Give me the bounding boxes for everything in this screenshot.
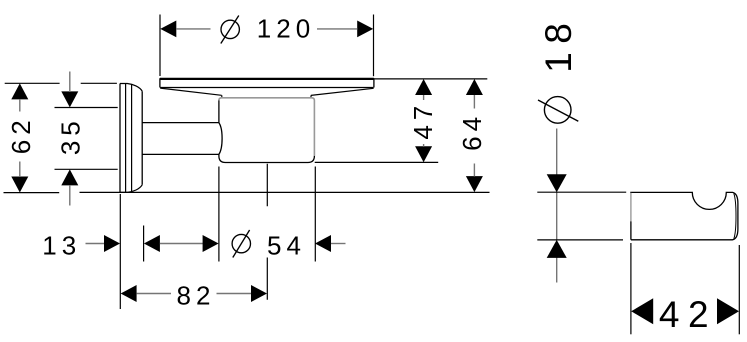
- dim 18 top arrow (pointing down): [547, 174, 567, 192]
- dim 64 tails: [473, 95, 475, 177]
- extension line x=120 below plate: [119, 194, 121, 309]
- wall plate escutcheon: [120, 84, 142, 193]
- hook body (right view): [631, 192, 738, 239]
- phi symbol for 120: [221, 16, 240, 44]
- dim phi120 left extension line: [159, 15, 161, 77]
- svg-text:120: 120: [257, 14, 315, 44]
- dim 64 top arrow: [466, 79, 483, 95]
- dim 35 bottom extension: [55, 168, 118, 170]
- dim 18 bottom arrow (pointing up): [547, 240, 567, 258]
- dim 62 bottom extension: [4, 192, 60, 194]
- dim 18 vertical tails: [556, 129, 558, 283]
- dish underside left slope: [160, 88, 221, 95]
- dim 54 right arrow (pointing left): [315, 235, 331, 252]
- phi symbol for 18: [538, 97, 578, 124]
- dim 18 bottom extension: [537, 239, 623, 241]
- dim 35 line tails: [69, 72, 71, 206]
- svg-text:64: 64: [457, 112, 487, 151]
- dim 62 line tails: [19, 99, 21, 177]
- dim 82 left arrow: [121, 285, 137, 302]
- dim 64 bottom arrow: [466, 176, 483, 192]
- arm top line: [142, 122, 219, 124]
- phi symbol for 54: [232, 230, 250, 258]
- dim 18 top extension: [537, 191, 626, 193]
- svg-text:35: 35: [56, 116, 86, 155]
- dish underside right slope: [311, 88, 374, 95]
- dim 62 top extension: [5, 82, 117, 84]
- dim phi120 right arrow: [357, 21, 373, 38]
- dim 47 top arrow: [415, 79, 432, 95]
- dim 35 top arrow (outside, pointing down): [61, 91, 78, 107]
- hub left step: [221, 95, 223, 97]
- holder cylinder left edge, fillet and bottom (black): [219, 100, 315, 162]
- dim 47 bottom extension: [315, 161, 439, 163]
- arm bottom line: [142, 153, 219, 155]
- dim 54 tail between arrows: [160, 243, 203, 245]
- dim 47 bottom arrow: [415, 146, 432, 162]
- dim phi120 line tails: [176, 28, 358, 30]
- baseline (wall line): [80, 191, 490, 193]
- svg-text:42: 42: [659, 294, 717, 335]
- dim 13 left arrow (pointing right): [104, 235, 120, 252]
- center leader x=267 (holder centre): [266, 164, 268, 300]
- svg-text:62: 62: [6, 115, 36, 154]
- dim 54 right tail: [331, 243, 346, 245]
- svg-text:54: 54: [267, 230, 306, 260]
- dim 42 left arrow: [631, 298, 653, 324]
- hub right step: [310, 95, 312, 97]
- svg-text:82: 82: [177, 281, 216, 311]
- dim 42 left extension: [630, 243, 632, 334]
- dim 13 right arrow (pointing left): [144, 235, 160, 252]
- extension line x=143.5 (13 right): [143, 226, 145, 262]
- dim 54 left arrow (pointing right): [203, 235, 219, 252]
- dim 47 tails: [423, 95, 425, 147]
- soap dish plate (side view, top slab): [160, 79, 374, 88]
- svg-text:47: 47: [408, 101, 438, 140]
- extension line x=315 (holder right): [314, 167, 316, 262]
- top right extension line (dish top): [374, 78, 487, 80]
- dim 82 tails: [136, 293, 252, 295]
- dim 42 right arrow: [717, 298, 739, 324]
- dim 13 tail: [86, 243, 105, 245]
- dim 82 right arrow: [251, 285, 267, 302]
- extension line x=219 (holder left): [218, 167, 220, 262]
- svg-text:13: 13: [42, 230, 81, 260]
- dim phi120 left arrow: [160, 21, 176, 38]
- dim 62 top arrow: [11, 83, 28, 99]
- dim 62 bottom arrow: [11, 177, 28, 193]
- dim 35 top extension: [55, 107, 118, 109]
- dim 42 right extension: [738, 245, 740, 334]
- holder cylinder top and right edge (gray): [219, 98, 315, 156]
- dim 35 bottom arrow (outside, pointing up): [61, 169, 78, 185]
- svg-text:18: 18: [538, 15, 579, 73]
- dim phi120 right extension line: [373, 15, 375, 77]
